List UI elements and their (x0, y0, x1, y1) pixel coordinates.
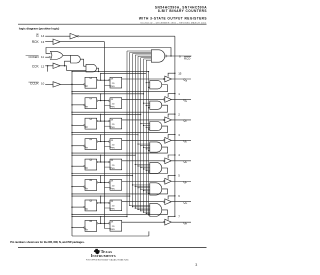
svg-text:2D: 2D (112, 185, 115, 187)
svg-text:2D: 2D (112, 124, 115, 126)
svg-text:logic diagram (positive logic): logic diagram (positive logic) (19, 26, 59, 30)
svg-text:CCKEN: CCKEN (28, 55, 38, 59)
svg-text:2D: 2D (112, 144, 115, 146)
svg-text:Pin numbers shown are for the: Pin numbers shown are for the DB, DW, N,… (10, 240, 85, 244)
svg-text:8-BIT BINARY COUNTERS: 8-BIT BINARY COUNTERS (158, 9, 207, 13)
svg-text:POST OFFICE BOX 655303 • DALLA: POST OFFICE BOX 655303 • DALLAS, TEXAS 7… (86, 258, 128, 261)
svg-text:G: G (186, 203, 188, 205)
svg-text:2D: 2D (112, 83, 115, 85)
svg-text:2D: 2D (112, 165, 115, 167)
svg-text:13: 13 (41, 40, 45, 44)
svg-text:2D: 2D (112, 206, 115, 208)
svg-text:2D: 2D (112, 103, 115, 105)
svg-text:10: 10 (41, 82, 45, 86)
svg-text:3: 3 (195, 263, 197, 267)
svg-text:NSTRUMENTS: NSTRUMENTS (92, 254, 116, 258)
svg-text:RCK: RCK (32, 40, 40, 44)
svg-text:WITH 3-STATE OUTPUT REGISTERS: WITH 3-STATE OUTPUT REGISTERS (139, 17, 207, 21)
svg-text:15: 15 (178, 71, 182, 75)
svg-text:RCO: RCO (184, 57, 191, 61)
svg-text:11: 11 (41, 55, 44, 59)
svg-text:12: 12 (41, 65, 45, 69)
svg-text:14: 14 (41, 34, 45, 38)
svg-text:2D: 2D (112, 226, 115, 228)
svg-text:CCK: CCK (32, 65, 40, 69)
svg-text:SCLS011D – DECEMBER 1982 – REV: SCLS011D – DECEMBER 1982 – REVISED MARCH… (140, 21, 207, 24)
